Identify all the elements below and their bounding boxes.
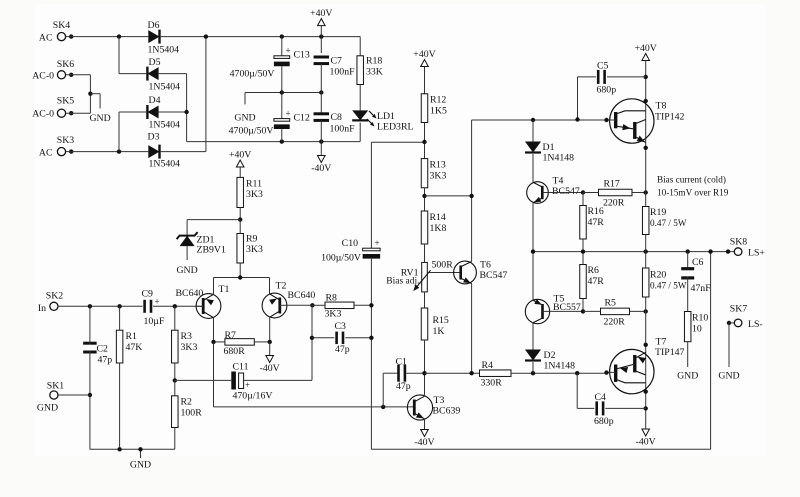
svg-text:C4: C4 — [595, 392, 607, 403]
label 1N5404 (D6) — [148, 45, 180, 56]
svg-text:C7: C7 — [331, 56, 343, 67]
svg-text:-40V: -40V — [414, 437, 434, 448]
wire C12 bottom — [281, 129, 283, 142]
label 1K (R15) — [433, 326, 445, 337]
svg-text:R7: R7 — [225, 330, 237, 341]
junction T2 base node — [310, 303, 314, 307]
label + (C13) — [286, 46, 291, 56]
label T5 — [554, 294, 565, 305]
label LED3RL — [377, 122, 413, 133]
wire R17 left lead — [583, 192, 599, 194]
label 470u/16V (C11) — [233, 391, 273, 402]
svg-text:1K: 1K — [433, 326, 445, 337]
wire C6 top lead — [687, 252, 689, 269]
label T8 — [656, 101, 667, 112]
transistor T2 — [262, 293, 287, 318]
label R3 — [181, 331, 193, 342]
resistor R19 — [642, 207, 649, 235]
wire ZD1 to GND — [186, 246, 188, 260]
svg-text:SK1: SK1 — [47, 381, 65, 392]
svg-text:GND: GND — [130, 460, 151, 471]
power -40V (T3) — [414, 430, 434, 449]
wire R9 to emitter rail — [239, 263, 241, 278]
svg-text:1N5404: 1N5404 — [149, 159, 181, 170]
svg-text:GND: GND — [234, 113, 255, 124]
svg-text:R16: R16 — [588, 206, 604, 217]
power -40V (T2/R7) — [260, 356, 280, 375]
junction T4 base/R16/R17 — [581, 190, 585, 194]
resistor R5 — [601, 308, 630, 315]
wire input to C9 — [58, 305, 143, 307]
junction GND rail/R1 — [117, 447, 121, 451]
wire C13 bottom — [281, 66, 283, 92]
wire T2 base to R8 — [287, 304, 313, 306]
terminal SK3 — [57, 148, 65, 156]
junction R3/R2/C11 — [173, 378, 177, 382]
wire R16 top lead — [582, 193, 584, 206]
wire R16 bottom lead — [582, 239, 584, 252]
svg-text:R13: R13 — [430, 160, 446, 171]
svg-text:C8: C8 — [331, 112, 343, 123]
wire R7 right — [254, 341, 269, 343]
svg-text:3K3: 3K3 — [430, 171, 447, 182]
label + (C11) — [245, 380, 250, 390]
label R2 — [181, 397, 193, 408]
label C9 — [142, 289, 154, 300]
svg-text:Bias current (cold): Bias current (cold) — [657, 175, 726, 185]
wire R8 right lead — [354, 304, 371, 306]
label R11 — [246, 179, 262, 190]
terminal dot SK8 — [726, 249, 730, 253]
wire C10 bottom column to output rail — [371, 252, 710, 450]
label TIP142 — [655, 112, 684, 123]
label C11 — [233, 362, 249, 373]
wire C3 left lead — [312, 337, 334, 339]
wire R2 bottom — [174, 428, 176, 450]
wire input to C2 — [89, 306, 91, 344]
transistor T6 — [454, 261, 477, 284]
wire R14 to RV1 — [424, 244, 426, 262]
label 47p (C2) — [98, 355, 113, 366]
wire T2 base column — [244, 305, 312, 380]
svg-text:R11: R11 — [246, 179, 262, 190]
label SK6 — [57, 59, 75, 70]
terminal dot SK5 — [69, 111, 73, 115]
svg-text:BC547: BC547 — [552, 186, 580, 197]
label R10 — [692, 313, 708, 324]
label Bias current (cold) — [657, 175, 726, 185]
ground (input rail) — [130, 460, 151, 471]
capacitor C10 — [363, 248, 381, 256]
label 3K3 (R13) — [430, 171, 447, 182]
svg-text:LD1: LD1 — [377, 111, 395, 122]
wire R7 left — [214, 341, 225, 343]
label 4700u/50V (C13) — [230, 69, 275, 80]
wire SK4 junction down to D5 cathode — [119, 37, 146, 74]
wire T3 collector — [424, 373, 426, 396]
label Bias adj. — [386, 277, 419, 287]
junction output/C6 — [686, 249, 690, 253]
label C6 — [692, 257, 704, 268]
wire T2 collector — [269, 317, 271, 342]
wire R4 to T7 base — [511, 372, 607, 374]
wire C1 right lead — [406, 372, 424, 374]
svg-text:1K5: 1K5 — [430, 106, 447, 117]
label R18 — [366, 56, 382, 67]
svg-text:+: + — [286, 46, 291, 56]
wire D5 anode to negative riser — [159, 73, 187, 75]
label R8 — [326, 293, 338, 304]
label R15 — [433, 315, 449, 326]
label R20 — [650, 270, 666, 281]
junction C4 branch — [575, 371, 579, 375]
label SK4 — [53, 20, 71, 31]
label R9 — [246, 234, 258, 245]
resistor R12 — [421, 94, 428, 123]
wire T4 emitter down — [532, 203, 534, 252]
svg-text:100R: 100R — [181, 408, 203, 419]
wire +40V to R11 — [239, 167, 241, 177]
svg-text:47R: 47R — [588, 276, 605, 287]
svg-text:C10: C10 — [342, 238, 358, 249]
label 10-15mV over R19 — [657, 188, 729, 198]
label 47p (C3) — [335, 344, 350, 355]
junction bottom rail / C8 — [319, 139, 323, 143]
capacitor C7 — [314, 57, 330, 64]
label 1N5404 (D3) — [149, 159, 181, 170]
svg-text:0.47 / 5W: 0.47 / 5W — [650, 218, 687, 228]
svg-text:C13: C13 — [294, 50, 310, 61]
junction C4/main — [644, 406, 648, 410]
svg-text:AC: AC — [39, 32, 53, 43]
svg-text:R8: R8 — [326, 293, 338, 304]
junction T1 collector/R7 — [211, 340, 215, 344]
label R5 — [605, 298, 617, 309]
diode D2 — [525, 350, 541, 361]
junction R5/main column — [644, 309, 648, 313]
junction input/R1 — [117, 304, 121, 308]
power +40V (output stage) — [634, 43, 656, 61]
wire C4 row — [577, 373, 646, 408]
junction output/R16R6 — [581, 249, 585, 253]
label 47R (R16) — [588, 217, 605, 228]
svg-text:D6: D6 — [148, 20, 160, 31]
wire T1 collector down and across to T3 base — [214, 342, 414, 407]
svg-text:+: + — [155, 297, 160, 307]
svg-text:220R: 220R — [603, 198, 625, 209]
terminal dot SK3 — [69, 149, 73, 153]
label R14 — [430, 212, 446, 223]
capacitor C2 — [83, 343, 97, 352]
svg-text:AC: AC — [39, 147, 53, 158]
wire D1 top lead — [532, 120, 534, 142]
wire T5 base to R6/R5 — [550, 310, 583, 312]
wire GND mid rail — [245, 93, 321, 105]
svg-text:T7: T7 — [656, 337, 667, 348]
svg-text:R12: R12 — [430, 95, 446, 106]
wire R6 bottom lead — [582, 299, 584, 312]
wire R3 bottom — [174, 363, 176, 380]
ground (AC-0) — [89, 113, 110, 124]
label R4 — [482, 360, 494, 371]
svg-text:D4: D4 — [149, 95, 161, 106]
svg-text:D2: D2 — [544, 350, 556, 361]
svg-text:LS+: LS+ — [748, 248, 765, 259]
label LS- — [748, 319, 763, 330]
wire junction to ZD1 — [187, 220, 240, 236]
svg-text:47p: 47p — [335, 344, 350, 355]
label 47p (C1) — [396, 381, 411, 392]
wire T5 emitter up — [532, 252, 534, 301]
svg-text:3K3: 3K3 — [181, 342, 198, 353]
wire C8 to bottom rail — [320, 120, 322, 141]
svg-text:GND: GND — [677, 371, 698, 382]
svg-text:SK3: SK3 — [57, 135, 75, 146]
svg-text:100µ/50V: 100µ/50V — [321, 253, 361, 264]
junction T7 collector — [644, 343, 648, 347]
svg-text:3K3: 3K3 — [325, 309, 342, 320]
terminal dot SK6 — [69, 73, 73, 77]
svg-text:3K3: 3K3 — [246, 244, 263, 255]
junction top rail / C7 — [319, 34, 323, 38]
label BC547 (T6) — [480, 270, 508, 281]
svg-text:R15: R15 — [433, 315, 449, 326]
wire R6 top lead — [582, 252, 584, 265]
resistor R20 — [642, 268, 649, 297]
svg-text:1N4148: 1N4148 — [544, 361, 576, 372]
wire negative riser D5/D4 — [186, 74, 188, 142]
wire R8 left lead — [312, 304, 325, 306]
svg-text:1N5404: 1N5404 — [149, 120, 181, 131]
svg-text:D5: D5 — [149, 57, 161, 68]
junction C3/output column — [369, 336, 373, 340]
label 680p (C5) — [597, 85, 617, 96]
junction T8 emitter — [644, 146, 648, 150]
label 100u/50V (C10) — [321, 253, 361, 264]
svg-text:D3: D3 — [148, 131, 160, 142]
label 680R (R7) — [224, 346, 246, 357]
junction T7 base entry — [604, 370, 608, 374]
junction emitter rail/R9 — [238, 275, 242, 279]
resistor R7 — [225, 339, 254, 346]
label D6 — [148, 20, 160, 31]
transistor T3 — [407, 395, 432, 420]
label 47R (R6) — [588, 276, 605, 287]
label C13 — [294, 50, 310, 61]
label 33K — [366, 67, 383, 78]
label SK8 — [730, 237, 748, 248]
label BC639 (T3) — [433, 406, 461, 417]
wire R11 to junction — [239, 208, 241, 220]
wire input GND rail — [90, 449, 175, 458]
label R7 — [225, 330, 237, 341]
wire C9 to T1 base — [153, 305, 203, 307]
svg-text:T8: T8 — [656, 101, 667, 112]
label R12 — [430, 95, 446, 106]
wire D3 cathode riser to + rail — [161, 37, 206, 152]
svg-text:AC-0: AC-0 — [32, 70, 54, 81]
label T4 — [553, 176, 564, 187]
wire T1 emitter — [213, 278, 215, 295]
wire D1 to T4 collector — [532, 154, 534, 182]
label RV1 — [401, 268, 419, 279]
capacitor C8 — [314, 114, 330, 121]
junction top rail / C13 — [280, 34, 284, 38]
svg-text:+40V: +40V — [310, 8, 332, 19]
terminal SK2 — [50, 302, 58, 310]
svg-text:-40V: -40V — [260, 363, 280, 374]
svg-text:D1: D1 — [543, 142, 555, 153]
svg-text:1N5404: 1N5404 — [149, 81, 181, 92]
junction T8 collector — [644, 99, 648, 103]
label 47K (R1) — [126, 342, 143, 353]
svg-text:R3: R3 — [181, 331, 193, 342]
wire C5 row — [578, 77, 646, 120]
svg-text:680R: 680R — [224, 346, 246, 357]
label 1N4148 (D1) — [543, 153, 575, 164]
svg-text:AC-0: AC-0 — [32, 109, 54, 120]
label BC547 (T4) — [552, 186, 580, 197]
junction T1 base/R3 — [173, 304, 177, 308]
svg-text:GND: GND — [176, 265, 197, 276]
wire R10 to GND — [687, 342, 689, 367]
svg-text:SK7: SK7 — [730, 304, 748, 315]
wire +40V to R12 — [424, 67, 426, 94]
svg-text:R18: R18 — [366, 56, 382, 67]
label D1 — [543, 142, 555, 153]
junction R17/R19/main — [644, 190, 648, 194]
wire emitter rail T1-T2 — [214, 277, 270, 279]
wire junction to R9 — [239, 220, 241, 234]
resistor R2 — [172, 396, 179, 428]
power +40V (R12) — [413, 49, 435, 67]
svg-text:R20: R20 — [650, 270, 666, 281]
wire R3 top — [174, 306, 176, 330]
label ZB9V1 — [197, 245, 226, 256]
ground (SK7) — [718, 371, 739, 382]
svg-text:3K3: 3K3 — [246, 189, 263, 200]
label AC (SK3) — [39, 147, 53, 158]
svg-text:C6: C6 — [692, 257, 704, 268]
wire RV1 wiper to T6 base — [427, 272, 460, 274]
label AC-0 (SK6) — [32, 70, 54, 81]
label + (C12) — [286, 109, 291, 119]
wire T4 base to R16/R17 — [548, 192, 583, 194]
wire T5 collector to D2 — [532, 323, 534, 350]
terminal SK6 — [57, 71, 65, 79]
label SK7 — [730, 304, 748, 315]
power +40V (R11) — [229, 150, 251, 168]
terminal SK5 — [57, 109, 65, 117]
svg-text:C11: C11 — [233, 362, 249, 373]
wire SK4 to D6 — [66, 36, 149, 38]
wire C6 to R10 — [687, 277, 689, 312]
wire R13 to R14 — [424, 188, 426, 211]
svg-text:47K: 47K — [126, 342, 143, 353]
svg-text:-40V: -40V — [636, 437, 656, 448]
svg-text:+: + — [286, 109, 291, 119]
transistor T7 — [607, 349, 655, 393]
label C7 — [331, 56, 343, 67]
label 10 (R10) — [692, 324, 702, 335]
svg-text:R17: R17 — [604, 179, 620, 190]
LED LD1 — [352, 110, 368, 120]
junction T2 collector/R7 — [268, 340, 272, 344]
resistor R8 — [325, 302, 354, 309]
svg-text:SK5: SK5 — [57, 95, 75, 106]
svg-text:4700µ/50V: 4700µ/50V — [229, 126, 274, 137]
wire D4 anode to negative riser — [159, 111, 187, 113]
ground (R10) — [677, 371, 698, 382]
ground label (SK1) — [37, 403, 58, 414]
svg-text:+: + — [375, 238, 380, 248]
label R13 — [430, 160, 446, 171]
wire C1 branch — [383, 373, 397, 407]
svg-text:330R: 330R — [481, 378, 503, 389]
label 3K3 (R3) — [181, 342, 198, 353]
wire main column low — [645, 297, 647, 429]
ground (PSU mid rail) — [234, 113, 255, 124]
svg-text:T2: T2 — [276, 281, 287, 292]
svg-text:GND: GND — [37, 403, 58, 414]
wire main column mid — [645, 235, 647, 269]
capacitor C12 — [274, 119, 290, 127]
svg-text:10-15mV over R19: 10-15mV over R19 — [657, 188, 729, 198]
label AC (SK4) — [39, 32, 53, 43]
LED arrows LD1 — [367, 111, 377, 127]
junction C5 branch/T8 base — [575, 117, 579, 121]
label 0.47/5W (R20) — [650, 281, 687, 291]
svg-text:0.47 / 5W: 0.47 / 5W — [650, 281, 687, 291]
junction R12/R13/C10wire — [422, 140, 426, 144]
resistor R17 — [599, 189, 633, 196]
svg-text:R2: R2 — [181, 397, 193, 408]
junction mid rail / C7-C8 — [319, 90, 323, 94]
junction top rail / D3 riser — [204, 34, 208, 38]
wire -40V bottom rail — [187, 141, 361, 143]
wire +40V top rail — [161, 36, 361, 38]
capacitor C13 — [274, 56, 290, 64]
junction output/R19R20 — [644, 249, 648, 253]
svg-text:1N4148: 1N4148 — [543, 153, 575, 164]
junction T6 collector/R13 wire — [469, 194, 473, 198]
terminal dot SK7 — [727, 321, 731, 325]
junction T6 emitter/R4 row — [469, 371, 473, 375]
wire D2 to R4 row — [532, 362, 534, 373]
svg-text:SK6: SK6 — [57, 59, 75, 70]
label + (C9) — [155, 297, 160, 307]
svg-text:1N5404: 1N5404 — [148, 45, 180, 56]
capacitor C5 — [598, 70, 604, 84]
svg-text:33K: 33K — [366, 67, 383, 78]
label 100nF (C7) — [330, 67, 356, 78]
svg-text:TIP142: TIP142 — [655, 112, 684, 123]
label 1N4148 (D2) — [544, 361, 576, 372]
label SK5 — [57, 95, 75, 106]
capacitor C11 — [234, 372, 244, 390]
wire SK3 junction up to D4 cathode — [119, 112, 146, 152]
svg-text:500R: 500R — [432, 260, 454, 271]
svg-text:T3: T3 — [434, 395, 445, 406]
wire T1 collector — [213, 318, 215, 342]
label 1N5404 (D4) — [149, 120, 181, 131]
diode D1 — [525, 142, 541, 153]
wire R1 top — [119, 306, 121, 330]
svg-text:BC640: BC640 — [288, 290, 316, 301]
svg-text:ZB9V1: ZB9V1 — [197, 245, 226, 256]
wire T2 emitter — [269, 278, 271, 294]
label R19 — [650, 207, 666, 218]
